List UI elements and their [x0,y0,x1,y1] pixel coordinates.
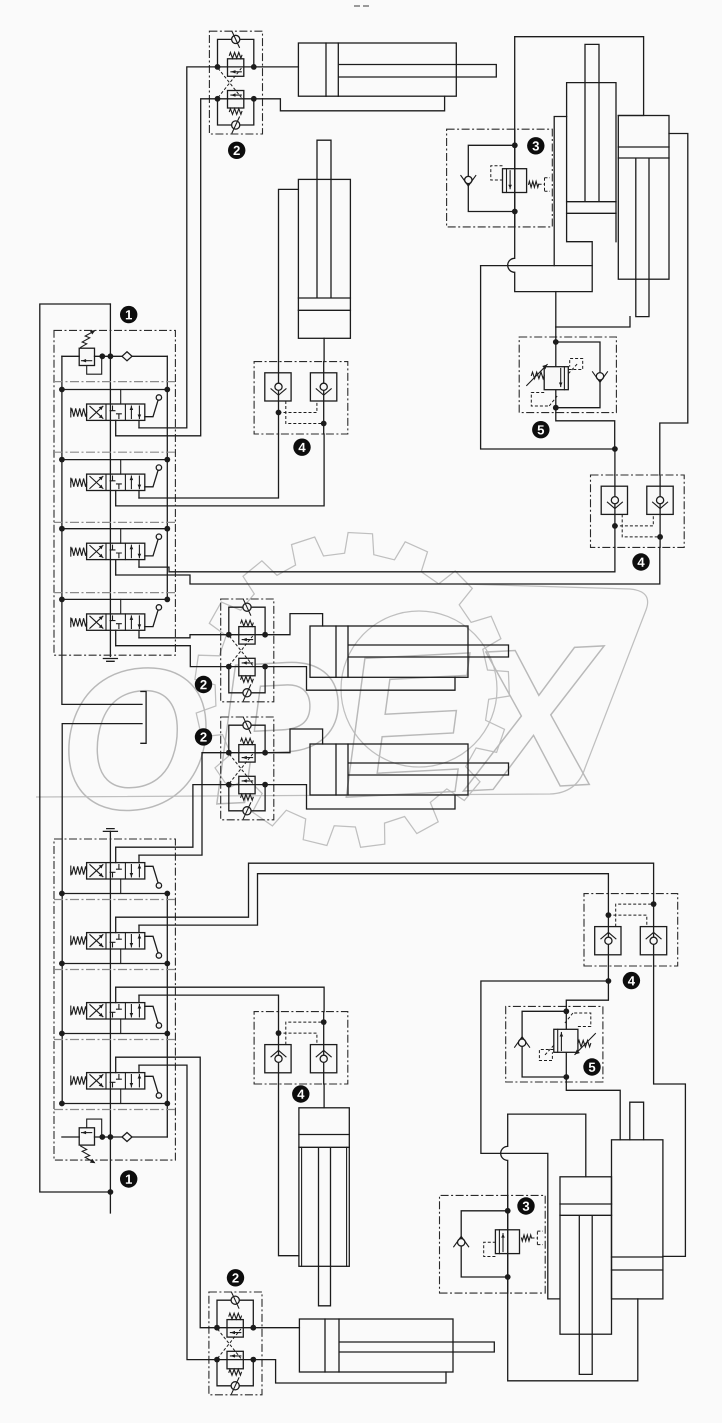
directional valve V2 (bottom block) [59,917,170,966]
wire: DCV2 outputs to block4 top middle [139,434,279,498]
section separator [54,969,175,971]
directional valve V2 (top block) [59,457,170,506]
valve block 1 (top) enclosure [54,330,175,655]
counterbalance block 5 (top right) [519,337,616,413]
wire: block4 top middle to mid cylinder [279,189,299,361]
wire: pressure line bottom block with pump stub [109,831,111,1213]
watermark swoosh [36,584,648,797]
label circle 4 [293,439,310,456]
bottom horizontal cylinder [299,1319,494,1372]
section separator [54,1039,175,1041]
bottom vertical cylinder [299,1108,349,1306]
wire: relief to rail [62,355,167,357]
section separator [54,899,175,901]
cylinder A outer tube [554,117,566,266]
bottom right assembly outline with hop arc [508,1114,586,1177]
wire: far-left supply rail [40,304,111,1192]
wire: branch to cylinder B rod tip [556,317,630,327]
label circle 5 [532,421,549,438]
relief valve top block [79,330,102,374]
label circle 3 [527,137,544,154]
relief block 3 (bottom, mirrored) [440,1195,546,1293]
wire: DCV1 outputs to block2 top [139,67,209,428]
wire: block5 drain to node [556,413,615,449]
relief block 3 (top right) [447,129,553,227]
wire: node to block5 bottom [566,981,608,1006]
check block 4 (top middle) [254,362,348,434]
wire: carryover rail right side top block [166,356,168,599]
label circle 4 [632,553,649,570]
directional valve V1 (bottom block) [59,847,170,896]
label circle 4 [292,1085,309,1102]
wire: block2 top to cylinder cap [263,66,299,68]
counterbalance block 2 (middle lower) [221,717,274,820]
section separator [54,1109,175,1111]
wire: tank rail top block to reservoir bracket [62,356,142,704]
reservoir bracket symbol [141,692,146,744]
corner mark [354,5,369,7]
svg-text:OPEX: OPEX [53,603,614,854]
wire: DCV1 bottom outputs to block2 middle lower [116,785,221,848]
bottom right cylinder 2 [612,1102,663,1299]
directional valve V3 (top block) [59,526,170,575]
wire: relief to rail bottom [62,1136,167,1138]
check block 4 (bottom middle, mirrored) [254,1012,348,1084]
section separator [54,381,175,383]
label circle 5 [583,1058,600,1075]
wire: block4 bottom right right valve to cylinder 2 [654,966,686,1256]
check block 4 (right) [591,475,685,547]
tank symbol bottom block [103,829,117,832]
wire: block2 middle lower to cylinder M2 [274,729,323,753]
wire: DCV4 bottom outputs to block2 bottom [116,1057,209,1328]
directional valve V4 (top block) [59,597,170,646]
wire: block5 riser from assembly [555,292,557,337]
wire: block5 bottom to cylinder 2 top [566,1082,620,1140]
watermark gear [195,533,510,848]
tank symbol top block [103,659,117,662]
counterbalance block 2 (middle upper) [221,599,274,702]
counterbalance block 2 (bottom) [209,1292,262,1395]
wire: block2 bottom to bottom cylinder [262,1327,299,1329]
wire: DCV4 outputs to block2 middle upper [139,635,221,638]
label circle 4 [623,972,640,989]
section separator [54,592,175,594]
wire: block4 bottom right left valve circuit [481,966,609,1299]
label circle 2 [228,142,245,159]
wire: reservoir bracket to bottom block tank rail [62,724,142,1104]
wire: DCV3 upper output to block4 right [139,547,615,571]
section separator [54,451,175,453]
top horizontal cylinder [298,43,496,96]
top right assembly outline with hop arc [515,37,644,116]
middle horizontal cylinder 1 [310,626,509,677]
wire: block4 bottom middle to bottom cylinder [279,1084,299,1256]
wire: DCV3 lower output to block4 right [116,547,660,584]
counterbalance block 5 (bottom, rotated 180) [506,1006,603,1082]
label circle 1 [120,1170,137,1187]
wire: block2 top to cylinder rod side [263,96,445,111]
directional valve V4 (bottom block) [59,1057,170,1106]
wire: block2 middle upper to cylinder M1 [274,614,323,635]
wire: DCV2 bottom outputs to block4 bottom right [116,863,654,917]
label circle 1 [120,306,137,323]
directional valve V3 (bottom block) [59,987,170,1036]
wire: annulus line to check block 4 right [481,265,593,267]
cylinder B (top right) [618,116,669,317]
middle horizontal cylinder 2 [310,744,509,795]
check valve diamond top [122,352,132,361]
valve block 1 (bottom) enclosure [54,839,175,1160]
section separator [54,521,175,523]
wire: DCV3 bottom outputs to block4 bottom middle [116,987,324,1011]
wire: pressure line P top block [109,304,111,657]
cylinder A (telescopic, top right) [567,44,616,241]
check valve diamond bottom [122,1133,132,1142]
bottom right cylinder 1 [560,1177,612,1375]
label circle 2 [195,676,212,693]
label circle 2 [227,1269,244,1286]
right extension line [660,134,688,476]
wire: node down to block4 right left valve [614,449,616,475]
check block 4 (bottom right, mirrored) [584,894,678,966]
wire: carryover rail right side bottom block [166,894,168,1138]
label circle 2 [195,728,212,745]
directional valve V1 (top block) [59,387,170,436]
relief valve bottom block [79,1119,102,1163]
label circle 3 [517,1197,534,1214]
middle vertical cylinder [298,140,350,338]
counterbalance block 2 (top) [209,31,262,134]
